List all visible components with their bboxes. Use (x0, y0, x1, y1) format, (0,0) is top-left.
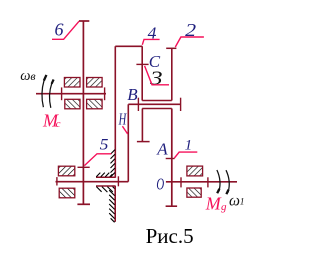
gear 5 bottom cap (77, 203, 90, 205)
gear5 axis tick right (117, 176, 119, 186)
B axis tick right (180, 98, 182, 111)
bearing box LR (87, 99, 103, 109)
leader 3 (145, 66, 169, 85)
svg-text:в: в (30, 69, 35, 83)
bearing box upper (187, 166, 203, 176)
gear 4-3 block left wall (141, 46, 143, 100)
shaft B axis (upper left) (36, 93, 106, 95)
leader 1 (174, 152, 197, 158)
gear 2 wall (171, 48, 173, 100)
node C tick (136, 63, 148, 65)
gear5 axis tick left (56, 177, 58, 185)
frame post lower (114, 186, 116, 222)
svg-text:B: B (127, 85, 138, 104)
gear5 bearing box upper (58, 166, 74, 176)
svg-text:c: c (56, 118, 61, 130)
gear 5 axis (56, 181, 129, 183)
shaft 1 bottom cap (166, 205, 178, 207)
svg-text:ω: ω (229, 192, 240, 209)
gear 6 top cap (79, 20, 89, 22)
carrier axis B (128, 103, 181, 105)
gear 5 mesh tick (78, 166, 90, 168)
leader H (122, 126, 127, 134)
bearing box UR (87, 78, 103, 88)
arrowhead arc3 (217, 189, 219, 194)
arrowhead arc1 (44, 75, 47, 81)
block bottom (142, 100, 172, 102)
leader 5 (84, 154, 111, 166)
svg-text:O: O (156, 175, 164, 194)
carrier H link (127, 104, 129, 181)
svg-text:Рис.5: Рис.5 (146, 224, 194, 248)
shaft 1 axis (166, 181, 237, 183)
bearing box LL (65, 99, 80, 109)
frame hatch upper (111, 150, 115, 178)
bearing box UL (64, 78, 80, 88)
bearing box lower (187, 188, 201, 197)
axis tick right (104, 87, 106, 100)
leader 4 (142, 39, 159, 44)
svg-text:6: 6 (55, 20, 64, 40)
svg-text:g: g (221, 201, 227, 213)
frame tab lower hatch (96, 187, 114, 193)
axis tick left (61, 87, 63, 100)
gear5 bearing box lower (59, 188, 75, 198)
left wall cap (137, 141, 150, 143)
node A tick (166, 158, 175, 160)
svg-text:A: A (156, 140, 168, 159)
frame top link (115, 45, 142, 47)
axis tick right (207, 177, 209, 187)
svg-text:H: H (118, 109, 127, 128)
shaft 1 (171, 109, 173, 207)
arrowhead arc2 (52, 80, 54, 84)
frame tab lower (96, 185, 116, 187)
svg-text:ω: ω (20, 68, 30, 84)
leader 6 (52, 21, 79, 39)
rotation arrow arcs (omega_v) (42, 80, 52, 108)
rotation arrow arcs (omega_1) (217, 170, 229, 192)
svg-text:1: 1 (240, 197, 245, 207)
frame post lower hatch (109, 190, 114, 222)
arrowhead arc4 (226, 190, 228, 195)
gear 2 top cap (166, 47, 176, 49)
frame post upper (114, 46, 116, 177)
gear 1 block top (142, 108, 172, 110)
gear block 5-6 shaft line (82, 21, 84, 204)
leader 2 (175, 37, 204, 47)
svg-text:M: M (205, 193, 222, 213)
svg-text:1: 1 (185, 138, 193, 154)
axis tick left (180, 177, 182, 187)
frame tab upper (96, 176, 115, 178)
svg-text:5: 5 (100, 136, 109, 153)
gear 1 block left wall (141, 109, 143, 142)
frame tab upper hatch (96, 173, 112, 177)
svg-text:3: 3 (149, 68, 163, 90)
B axis tick left (137, 98, 139, 111)
